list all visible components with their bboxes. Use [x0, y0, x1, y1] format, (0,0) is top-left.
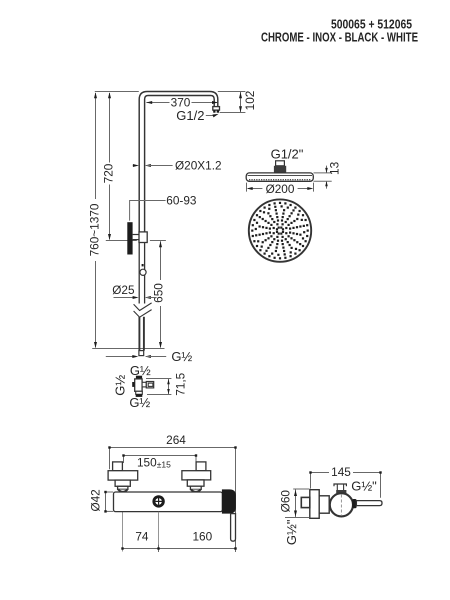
svg-text:71,5: 71,5: [174, 372, 188, 395]
holder ring: [140, 269, 146, 275]
dim diameter 42: [89, 489, 114, 512]
svg-text:102: 102: [243, 91, 257, 111]
dim diameter 25: [112, 283, 156, 299]
shower column pipe: [139, 92, 218, 233]
dim pipe diameter: [133, 159, 222, 173]
elbow body: [135, 379, 142, 391]
head disk side view: [246, 173, 313, 181]
svg-text:74: 74: [135, 530, 149, 544]
side valve body: [330, 493, 353, 516]
svg-text:720: 720: [102, 163, 116, 183]
label G1/2 outlet: [106, 349, 193, 364]
svg-text:760~1370: 760~1370: [87, 203, 101, 256]
svg-text:264: 264: [166, 433, 186, 447]
svg-text:Ø42: Ø42: [89, 489, 103, 511]
dim 760~1370: [87, 92, 101, 348]
svg-text:145: 145: [331, 465, 351, 479]
mixer lever: [231, 514, 236, 542]
dim 145: [309, 465, 381, 498]
dim 720: [102, 92, 137, 240]
column outlet nub: [139, 351, 144, 356]
svg-text:G½: G½: [171, 349, 192, 364]
label G1/2 arm: [176, 108, 218, 123]
svg-text:G1/2: G1/2: [176, 108, 204, 123]
svg-text:Ø60: Ø60: [279, 490, 293, 513]
svg-text:60-93: 60-93: [166, 193, 197, 207]
svg-text:Ø200: Ø200: [266, 182, 295, 196]
svg-text:G½: G½: [129, 395, 150, 410]
svg-text:Ø25: Ø25: [112, 283, 135, 297]
dim diameter 200: [247, 182, 314, 196]
dim 13: [314, 161, 342, 188]
union center lines: [123, 463, 197, 552]
svg-text:G1/2": G1/2": [271, 146, 304, 161]
side connector: [319, 496, 329, 513]
arm end fitting: [213, 107, 220, 113]
left wall union: [108, 462, 138, 492]
diverter screw: [152, 495, 164, 507]
side wall flange: [310, 490, 319, 519]
svg-text:160: 160: [192, 530, 212, 544]
dim 71,5: [146, 372, 188, 395]
elbow cap: [136, 376, 142, 379]
svg-text:CHROME - INOX - BLACK - WHITE: CHROME - INOX - BLACK - WHITE: [261, 30, 418, 45]
dim 650: [92, 241, 166, 349]
dim 370: [146, 96, 218, 110]
lower pipe: [139, 243, 144, 304]
elbow right port: [142, 382, 154, 388]
slider block: [139, 232, 147, 243]
head face circle: [249, 199, 311, 261]
svg-text:Ø20X1.2: Ø20X1.2: [175, 159, 222, 173]
screw center line: [158, 512, 160, 552]
mixer knob: [222, 489, 236, 513]
wall bracket: [127, 222, 132, 254]
head nozzle dots: [251, 202, 309, 260]
mixer body: [114, 492, 223, 512]
side lever bar: [356, 501, 382, 506]
label 60-93 leader: [130, 193, 197, 220]
svg-text:650: 650: [152, 283, 166, 303]
pipe break symbol: [134, 303, 152, 317]
svg-text:G½: G½: [113, 375, 128, 396]
dim 74 and 160: [121, 530, 236, 553]
svg-text:G½": G½": [351, 478, 377, 493]
svg-text:13: 13: [327, 161, 341, 175]
svg-text:G½": G½": [284, 519, 299, 545]
holder button: [142, 264, 144, 266]
dim 150 plus-minus 15: [122, 454, 197, 469]
hose pipe: [139, 317, 144, 351]
dim diameter 60: [279, 489, 310, 518]
side top port: [334, 484, 346, 493]
elbow left nub: [132, 382, 135, 387]
dim 102: [218, 91, 257, 113]
bracket arm: [133, 235, 140, 240]
extension line top: [95, 91, 139, 93]
right wall union: [182, 462, 211, 492]
head connector: [274, 161, 286, 173]
dim 264: [108, 433, 236, 552]
side wall nipple: [301, 497, 310, 507]
elbow bottom port: [136, 391, 143, 397]
side lever joint: [352, 499, 356, 508]
